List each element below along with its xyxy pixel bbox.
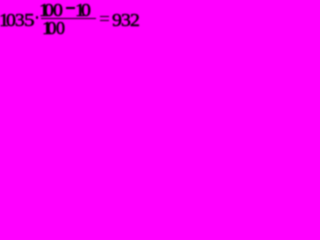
- fraction bar: [41, 18, 96, 20]
- equals sign: [100, 16, 110, 17]
- multiplication dot: [36, 16, 39, 18]
- numerator: 100 - 10: [39, 1, 49, 19]
- result: 932: [112, 11, 122, 29]
- main line: 1035: [0, 11, 9, 29]
- denominator: 100: [42, 19, 52, 37]
